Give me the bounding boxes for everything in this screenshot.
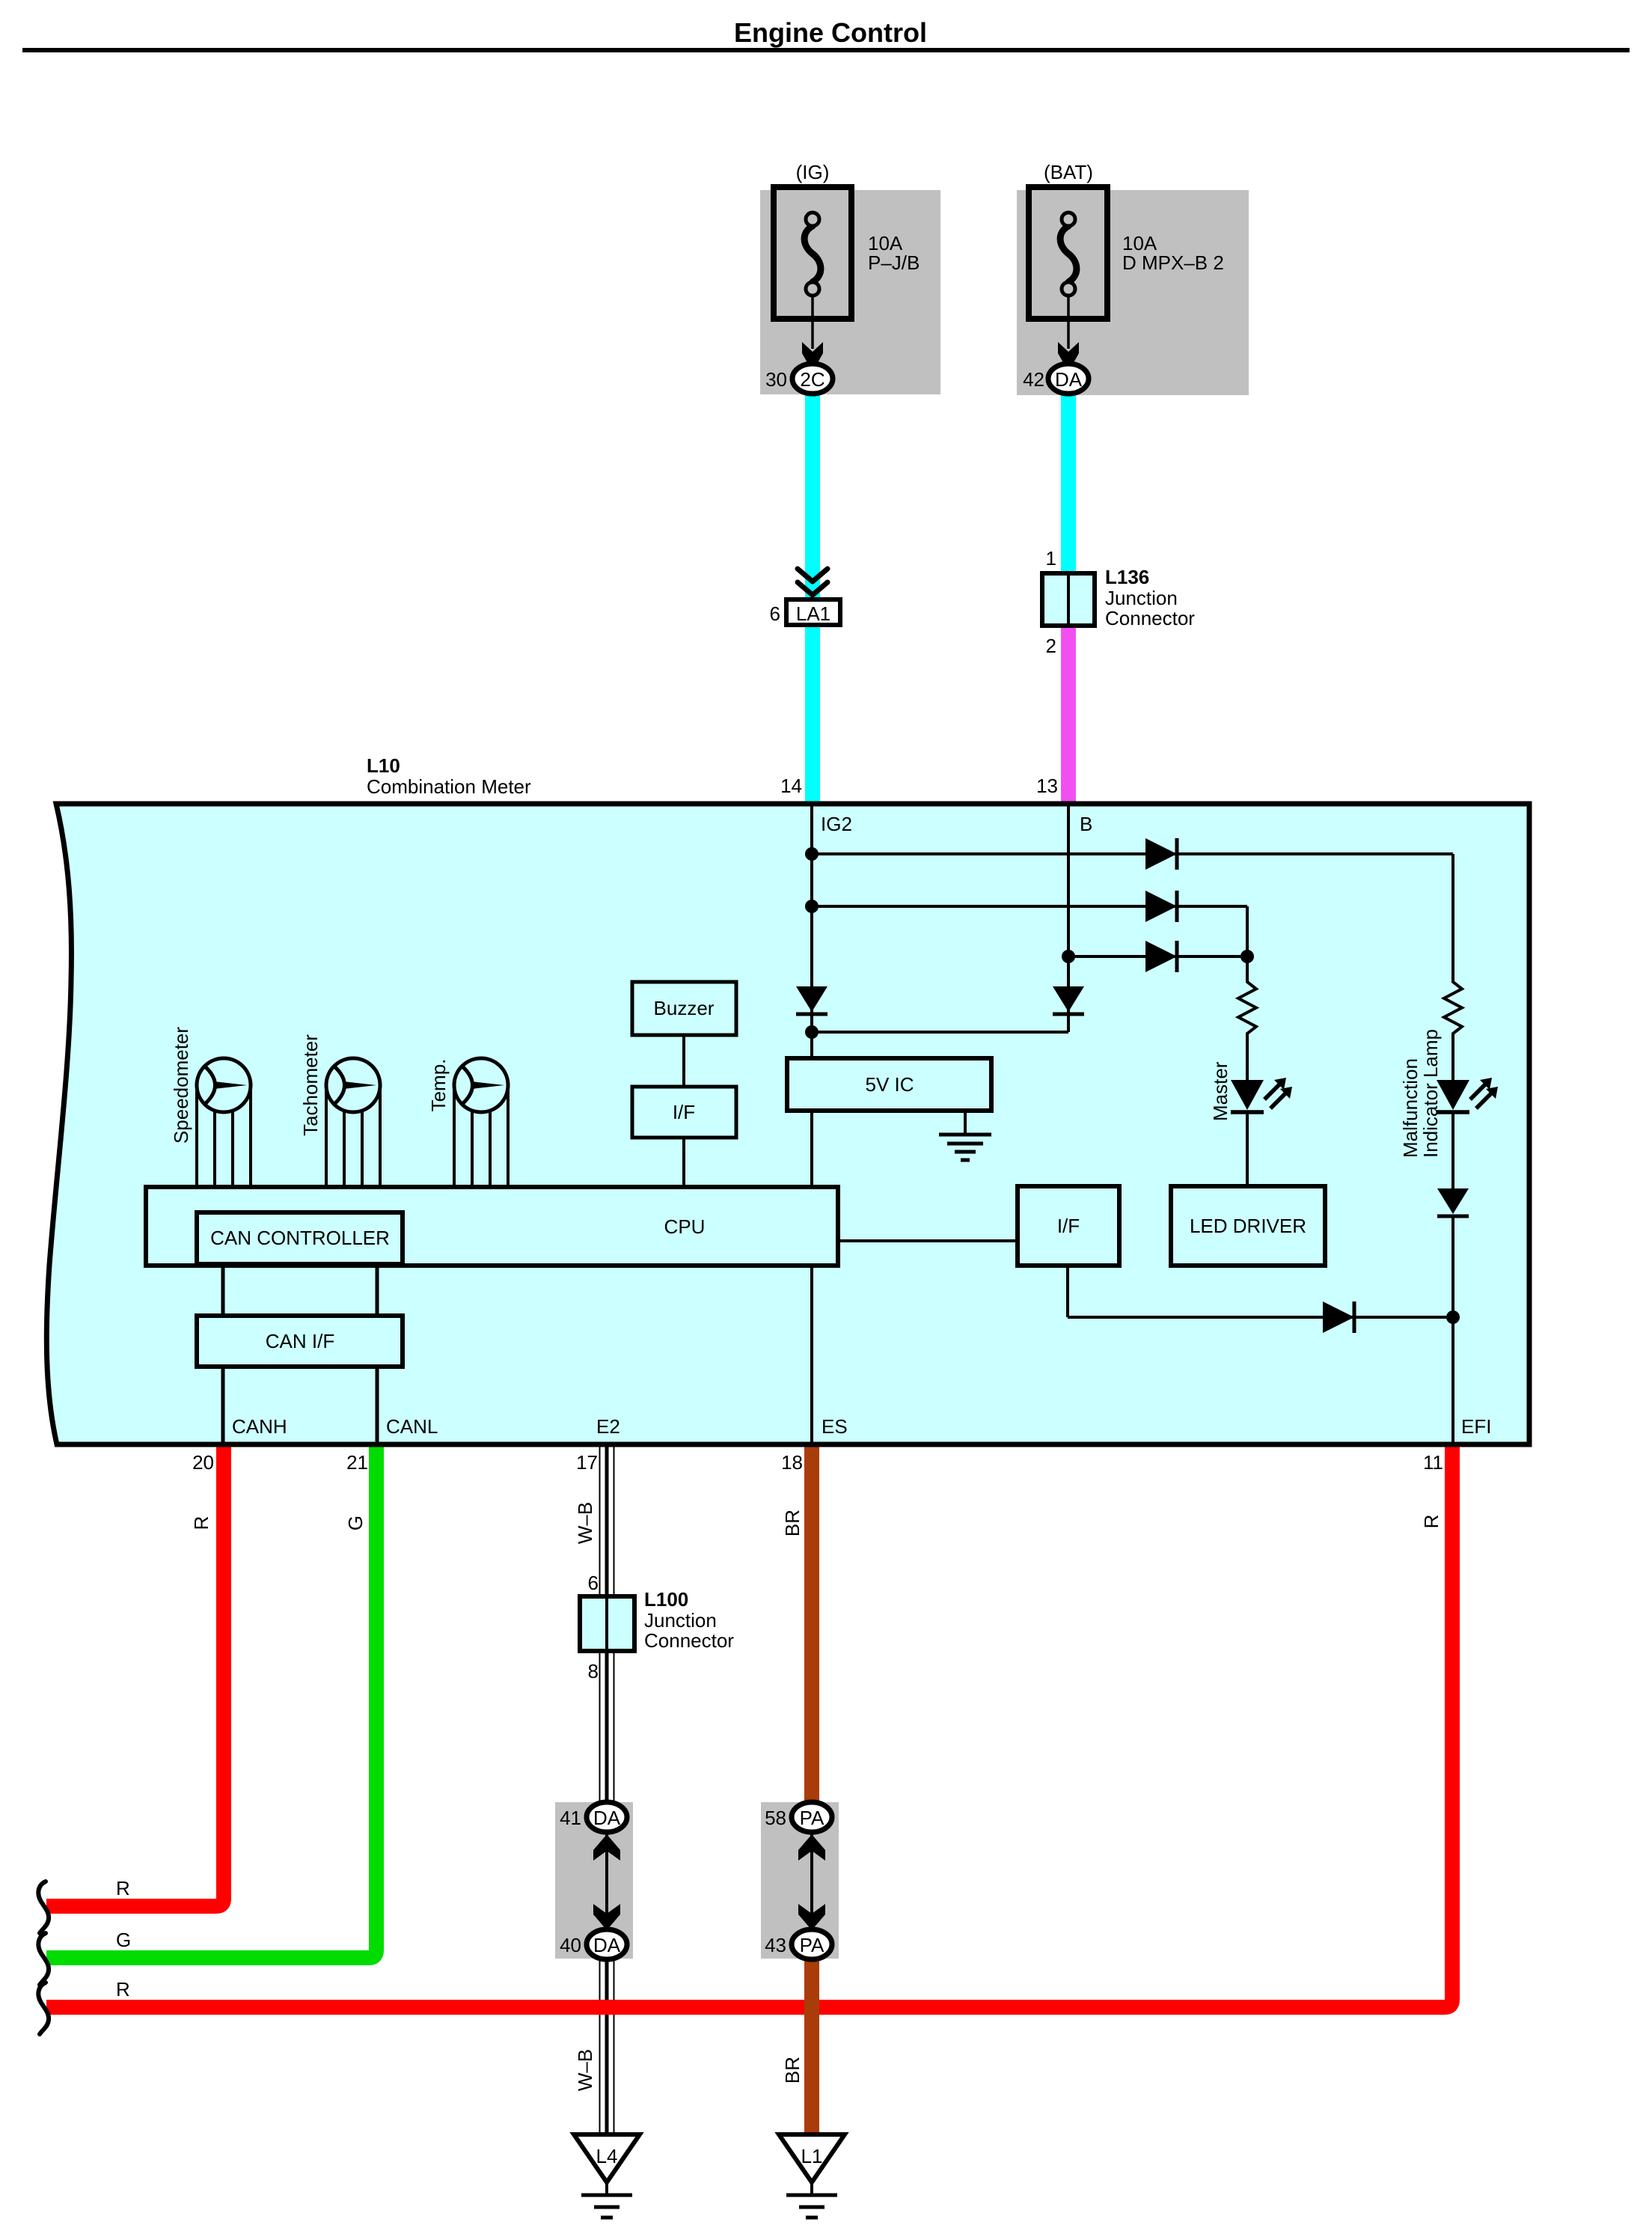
svg-text:R: R [1420,1515,1443,1529]
svg-text:Junction: Junction [644,1609,717,1632]
svg-text:Temp.: Temp. [427,1059,450,1112]
svg-text:2C: 2C [800,368,825,391]
svg-text:LED DRIVER: LED DRIVER [1190,1215,1306,1237]
svg-text:L4: L4 [596,2145,618,2167]
svg-text:40: 40 [560,1934,581,1956]
svg-text:43: 43 [765,1934,786,1956]
svg-text:E2: E2 [596,1415,620,1438]
svg-text:21: 21 [346,1451,368,1474]
svg-text:L10: L10 [367,754,400,777]
svg-text:L1: L1 [801,2145,823,2167]
svg-text:PA: PA [800,1934,825,1956]
svg-text:W–B: W–B [574,1502,596,1544]
svg-text:Junction: Junction [1105,587,1178,609]
svg-text:17: 17 [576,1451,598,1474]
svg-text:D MPX–B 2: D MPX–B 2 [1122,251,1224,274]
svg-text:CAN I/F: CAN I/F [266,1330,334,1352]
svg-text:6: 6 [770,602,780,625]
svg-text:30: 30 [765,368,787,391]
svg-text:I/F: I/F [673,1101,695,1123]
svg-text:CAN CONTROLLER: CAN CONTROLLER [210,1227,390,1249]
svg-text:(IG): (IG) [796,161,830,183]
svg-text:11: 11 [1423,1451,1443,1474]
svg-text:LA1: LA1 [796,602,830,625]
svg-text:Malfunction: Malfunction [1399,1058,1422,1158]
svg-text:B: B [1080,813,1092,835]
svg-text:18: 18 [781,1451,803,1474]
svg-text:W–B: W–B [574,2049,596,2091]
svg-text:PA: PA [800,1807,825,1829]
svg-text:6: 6 [588,1572,599,1594]
svg-text:Speedometer: Speedometer [170,1027,192,1144]
svg-text:1: 1 [1046,547,1056,570]
svg-text:Engine Control: Engine Control [734,17,927,48]
svg-text:Master: Master [1209,1061,1232,1121]
svg-text:L100: L100 [644,1588,688,1611]
svg-text:P–J/B: P–J/B [868,251,920,274]
svg-text:R: R [116,1877,130,1899]
svg-text:IG2: IG2 [821,813,852,835]
svg-text:BR: BR [781,1510,804,1536]
svg-text:R: R [116,1978,130,2000]
svg-text:CPU: CPU [664,1215,706,1238]
svg-text:Connector: Connector [644,1629,734,1652]
svg-text:Tachometer: Tachometer [299,1034,322,1136]
svg-text:R: R [190,1516,212,1530]
svg-text:20: 20 [192,1451,214,1474]
svg-text:Indicator Lamp: Indicator Lamp [1419,1029,1442,1158]
svg-text:DA: DA [593,1807,621,1829]
svg-text:DA: DA [593,1934,621,1956]
svg-text:I/F: I/F [1057,1215,1080,1237]
svg-text:DA: DA [1055,368,1083,391]
svg-text:ES: ES [822,1415,848,1438]
svg-text:G: G [344,1516,367,1530]
svg-text:58: 58 [765,1807,786,1829]
svg-text:8: 8 [588,1660,599,1682]
svg-text:(BAT): (BAT) [1044,161,1093,183]
svg-text:G: G [116,1929,131,1951]
svg-text:Combination Meter: Combination Meter [367,775,531,798]
svg-text:2: 2 [1046,635,1056,657]
svg-text:5V IC: 5V IC [865,1073,914,1096]
svg-text:Connector: Connector [1105,607,1195,629]
svg-text:CANL: CANL [386,1415,438,1438]
svg-text:L136: L136 [1105,566,1149,588]
svg-text:14: 14 [780,775,802,797]
svg-text:41: 41 [560,1807,581,1829]
svg-text:CANH: CANH [232,1415,287,1438]
svg-text:EFI: EFI [1461,1415,1491,1438]
svg-text:42: 42 [1023,368,1044,391]
svg-text:Buzzer: Buzzer [654,997,715,1019]
svg-text:BR: BR [781,2057,804,2084]
svg-text:13: 13 [1036,775,1058,797]
